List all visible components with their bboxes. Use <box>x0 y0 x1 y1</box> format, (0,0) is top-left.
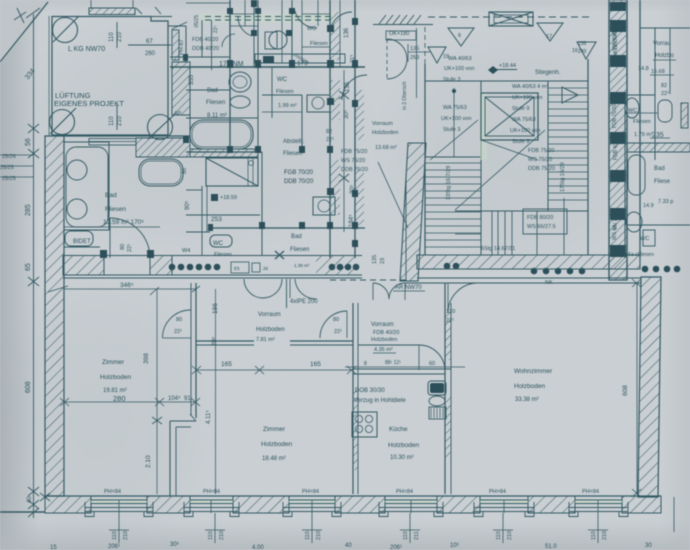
svg-text:DDB 75/20: DDB 75/20 <box>528 166 555 172</box>
svg-text:DOB 30/30: DOB 30/30 <box>355 388 385 394</box>
svg-text:135: 135 <box>372 255 378 264</box>
svg-text:17: 17 <box>546 34 552 40</box>
svg-text:WA 75/63: WA 75/63 <box>512 117 536 123</box>
svg-text:Holzboden: Holzboden <box>100 374 131 381</box>
svg-text:WS 66/27.5: WS 66/27.5 <box>527 224 556 230</box>
svg-text:7.33 p: 7.33 p <box>658 199 673 205</box>
svg-text:DDB 75/20: DDB 75/20 <box>341 167 368 173</box>
svg-text:25/25: 25/25 <box>0 165 14 171</box>
svg-text:Holzboden: Holzboden <box>514 383 545 390</box>
svg-text:18.48 m²: 18.48 m² <box>262 456 286 462</box>
svg-text:E5: E5 <box>234 266 240 271</box>
svg-text:40: 40 <box>27 496 33 503</box>
svg-text:165: 165 <box>310 361 321 368</box>
svg-text:136: 136 <box>344 27 350 38</box>
svg-text:22¹: 22¹ <box>174 329 182 335</box>
svg-text:AP: AP <box>174 111 182 117</box>
svg-text:22¹: 22¹ <box>326 137 334 143</box>
svg-text:253: 253 <box>211 216 222 223</box>
svg-text:UK+100 von: UK+100 von <box>441 116 471 122</box>
svg-text:4xIPE 200: 4xIPE 200 <box>290 299 318 305</box>
svg-text:Holzbo: Holzbo <box>655 53 674 59</box>
svg-text:DDB 40/20: DDB 40/20 <box>192 46 219 52</box>
svg-text:110: 110 <box>112 531 118 540</box>
svg-text:+18.44: +18.44 <box>499 63 516 69</box>
svg-text:253: 253 <box>410 55 419 61</box>
svg-text:17Stg 16/29: 17Stg 16/29 <box>560 162 566 192</box>
svg-text:Holzboden: Holzboden <box>371 337 397 343</box>
svg-text:104⁵: 104⁵ <box>168 395 181 402</box>
svg-text:Stufe 9: Stufe 9 <box>512 139 529 145</box>
svg-text:Fliesen: Fliesen <box>290 247 309 253</box>
svg-text:235: 235 <box>652 132 664 139</box>
svg-text:26: 26 <box>263 266 269 271</box>
svg-text:Abstellr.: Abstellr. <box>283 139 305 145</box>
svg-text:22⁵: 22⁵ <box>213 25 219 33</box>
svg-text:WS 75/20: WS 75/20 <box>528 157 552 163</box>
svg-text:210: 210 <box>219 531 225 540</box>
svg-text:16.68: 16.68 <box>651 69 665 75</box>
svg-text:56: 56 <box>25 138 32 146</box>
svg-text:136: 136 <box>578 41 587 47</box>
svg-text:82: 82 <box>326 129 332 135</box>
svg-text:Stufe 9: Stufe 9 <box>512 106 529 112</box>
svg-text:80: 80 <box>333 317 339 323</box>
svg-text:15: 15 <box>50 545 57 550</box>
svg-text:Holzboden: Holzboden <box>256 327 285 333</box>
svg-text:EIGENES PROJEKT: EIGENES PROJEKT <box>54 99 124 108</box>
svg-text:UK+100 von: UK+100 von <box>510 128 540 134</box>
svg-text:+18.59: +18.59 <box>220 195 237 201</box>
svg-text:WS 75/20: WS 75/20 <box>341 158 365 164</box>
svg-text:21⁵: 21⁵ <box>349 55 356 63</box>
svg-text:22¹: 22¹ <box>127 244 133 252</box>
svg-text:280: 280 <box>113 394 126 403</box>
svg-text:210: 210 <box>316 531 322 540</box>
svg-text:51.0: 51.0 <box>545 544 557 550</box>
svg-text:Holzboden: Holzboden <box>388 442 419 449</box>
svg-text:110: 110 <box>403 531 409 540</box>
svg-text:65: 65 <box>25 263 32 271</box>
svg-text:VN 75: VN 75 <box>613 216 619 230</box>
svg-text:206¹: 206¹ <box>108 544 120 550</box>
svg-text:Fliesen: Fliesen <box>206 100 225 106</box>
svg-text:211: 211 <box>414 531 420 540</box>
svg-text:Fliese: Fliese <box>654 179 671 185</box>
svg-text:WA 40/63 4 m²: WA 40/63 4 m² <box>512 84 548 90</box>
svg-text:80: 80 <box>120 244 126 250</box>
svg-text:172 NM: 172 NM <box>219 61 244 68</box>
svg-text:1.79 m²: 1.79 m² <box>634 132 653 138</box>
svg-text:2.10: 2.10 <box>145 455 152 468</box>
svg-text:FDB 75/20: FDB 75/20 <box>341 149 367 155</box>
svg-text:4.35 m²: 4.35 m² <box>374 347 393 353</box>
svg-text:13.68 m²: 13.68 m² <box>375 145 397 151</box>
svg-text:8.11 m²: 8.11 m² <box>207 113 227 119</box>
svg-text:Stufe 3: Stufe 3 <box>443 127 460 133</box>
svg-text:120: 120 <box>446 309 455 315</box>
svg-text:Holzboden: Holzboden <box>261 441 292 448</box>
svg-text:PH-87: PH-87 <box>179 39 185 55</box>
svg-text:346⁵: 346⁵ <box>120 282 134 289</box>
svg-text:Fliesen: Fliesen <box>276 89 294 95</box>
svg-text:82: 82 <box>661 83 667 89</box>
svg-text:7.81 m²: 7.81 m² <box>256 337 275 343</box>
svg-text:UK+100 von: UK+100 von <box>444 66 474 72</box>
svg-text:210: 210 <box>602 531 608 540</box>
svg-text:W4: W4 <box>182 248 190 254</box>
svg-text:6: 6 <box>458 33 461 39</box>
svg-text:ANKLEIDUNG: ANKLEIDUNG <box>613 27 619 60</box>
svg-text:Stiegenh.: Stiegenh. <box>535 70 561 76</box>
svg-text:40: 40 <box>345 543 352 549</box>
svg-text:210: 210 <box>117 115 123 126</box>
svg-text:1.38 m²: 1.38 m² <box>294 263 310 268</box>
svg-text:22¹: 22¹ <box>334 329 342 335</box>
svg-text:Vorraum: Vorraum <box>372 121 393 127</box>
svg-text:PH=84: PH=84 <box>302 489 319 495</box>
svg-text:UK+100 von: UK+100 von <box>512 95 542 101</box>
svg-text:285: 285 <box>25 204 32 216</box>
svg-text:FDB 75/20: FDB 75/20 <box>612 104 618 128</box>
svg-text:6Stg 14.67/31: 6Stg 14.67/31 <box>481 246 515 252</box>
svg-text:398: 398 <box>143 353 150 364</box>
svg-text:Fliesen: Fliesen <box>310 41 328 47</box>
svg-text:1.99 m²: 1.99 m² <box>278 103 297 109</box>
svg-text:608: 608 <box>25 381 32 393</box>
svg-text:88¹ 12¹: 88¹ 12¹ <box>385 360 401 366</box>
svg-text:135: 135 <box>410 46 419 52</box>
svg-text:Stufe 3: Stufe 3 <box>443 77 460 83</box>
svg-text:67: 67 <box>146 39 153 45</box>
svg-text:FDB 40/20: FDB 40/20 <box>613 136 619 160</box>
svg-text:Bad: Bad <box>207 88 218 94</box>
svg-text:4.00: 4.00 <box>252 545 264 550</box>
svg-text:WA 40/63: WA 40/63 <box>448 56 472 62</box>
svg-text:BIDET: BIDET <box>73 239 91 245</box>
svg-text:DDB 70/20: DDB 70/20 <box>284 179 314 185</box>
svg-text:210: 210 <box>507 531 513 540</box>
svg-text:05/25: 05/25 <box>194 15 200 28</box>
svg-text:Fliesen: Fliesen <box>105 206 126 213</box>
svg-text:PH=84: PH=84 <box>582 489 599 495</box>
svg-text:80: 80 <box>182 168 188 174</box>
svg-text:AR NW70: AR NW70 <box>395 285 422 291</box>
svg-text:Bad: Bad <box>105 192 117 199</box>
svg-text:8: 8 <box>364 361 367 367</box>
svg-text:210: 210 <box>117 31 123 42</box>
svg-text:14.9: 14.9 <box>643 203 654 209</box>
svg-text:260: 260 <box>145 51 156 57</box>
svg-text:WC: WC <box>277 77 288 83</box>
svg-text:PH=84: PH=84 <box>104 489 121 495</box>
svg-text:110: 110 <box>591 531 597 540</box>
svg-text:110: 110 <box>109 32 115 42</box>
svg-text:Bad: Bad <box>654 166 665 172</box>
svg-text:60: 60 <box>429 361 435 367</box>
svg-text:22¹: 22¹ <box>446 318 454 324</box>
svg-text:FDB 40/20: FDB 40/20 <box>373 330 399 336</box>
svg-text:135: 135 <box>345 81 351 92</box>
svg-text:Zimmer: Zimmer <box>263 426 286 433</box>
svg-text:Fliesen: Fliesen <box>633 119 651 125</box>
svg-text:22¹: 22¹ <box>661 91 669 97</box>
svg-text:FDB 75/20: FDB 75/20 <box>528 148 554 154</box>
svg-text:23: 23 <box>380 258 386 264</box>
svg-text:80: 80 <box>176 317 182 323</box>
svg-text:Fliesen: Fliesen <box>214 252 232 258</box>
svg-text:25/25: 25/25 <box>2 176 16 182</box>
svg-text:FDB 80/20: FDB 80/20 <box>527 215 553 221</box>
svg-text:WC: WC <box>628 108 637 114</box>
svg-text:165: 165 <box>221 361 232 368</box>
svg-text:in 2.Obersch: in 2.Obersch <box>402 81 408 110</box>
svg-text:L KG NW70: L KG NW70 <box>68 46 105 53</box>
svg-text:608: 608 <box>622 385 629 396</box>
svg-text:30⁵: 30⁵ <box>349 184 356 194</box>
svg-text:33.38 m²: 33.38 m² <box>515 397 539 403</box>
svg-text:206¹: 206¹ <box>390 545 402 550</box>
svg-text:Zimmer: Zimmer <box>102 359 125 366</box>
svg-text:173: 173 <box>297 60 308 67</box>
svg-text:PH=84: PH=84 <box>203 489 220 495</box>
svg-text:WC: WC <box>213 241 224 247</box>
svg-text:10³: 10³ <box>450 543 459 549</box>
svg-text:12.59 m² 170⁵: 12.59 m² 170⁵ <box>103 219 144 226</box>
svg-text:25/26: 25/26 <box>2 154 16 160</box>
svg-text:90⁵: 90⁵ <box>184 200 191 210</box>
svg-text:186: 186 <box>212 303 219 314</box>
svg-text:Verzug in Hohldiele: Verzug in Hohldiele <box>354 398 406 404</box>
svg-text:Fliesen: Fliesen <box>283 151 302 157</box>
svg-text:20⁵: 20⁵ <box>211 336 218 346</box>
svg-text:30⁵: 30⁵ <box>170 541 180 548</box>
svg-text:30: 30 <box>645 543 652 549</box>
svg-text:14.8: 14.8 <box>638 66 649 72</box>
svg-text:Küche: Küche <box>389 426 408 433</box>
svg-text:PH=84: PH=84 <box>489 489 506 495</box>
svg-text:110: 110 <box>208 531 214 540</box>
svg-text:Vorraum: Vorraum <box>258 312 281 318</box>
svg-text:PH=84: PH=84 <box>396 489 413 495</box>
svg-text:WC: WC <box>307 26 316 32</box>
svg-text:Vorrau: Vorrau <box>653 41 671 47</box>
svg-text:Wohnzimmer: Wohnzimmer <box>514 368 553 375</box>
svg-text:10.30 m²: 10.30 m² <box>390 455 414 461</box>
svg-text:91: 91 <box>184 396 191 402</box>
svg-text:WA 75/63: WA 75/63 <box>443 105 467 111</box>
svg-text:33Stg 16.7/29: 33Stg 16.7/29 <box>446 166 452 200</box>
svg-text:FDB 40/20: FDB 40/20 <box>192 37 218 43</box>
svg-text:210: 210 <box>123 531 129 540</box>
svg-text:FGB 70/20: FGB 70/20 <box>284 170 314 176</box>
svg-text:355: 355 <box>189 74 195 85</box>
svg-text:n.6a sFliesen: n.6a sFliesen <box>624 252 654 258</box>
svg-text:WC: WC <box>640 236 649 242</box>
svg-text:4.11⁵: 4.11⁵ <box>205 410 212 424</box>
svg-text:Bad: Bad <box>291 234 302 240</box>
svg-text:110: 110 <box>109 116 115 126</box>
svg-text:OK+180: OK+180 <box>389 31 409 37</box>
svg-text:249: 249 <box>578 49 587 55</box>
svg-text:Vorraum: Vorraum <box>371 322 394 328</box>
svg-text:184⁵: 184⁵ <box>348 214 355 227</box>
svg-text:Holzboden: Holzboden <box>372 130 398 136</box>
svg-text:110: 110 <box>305 531 311 540</box>
svg-text:110: 110 <box>496 531 502 540</box>
